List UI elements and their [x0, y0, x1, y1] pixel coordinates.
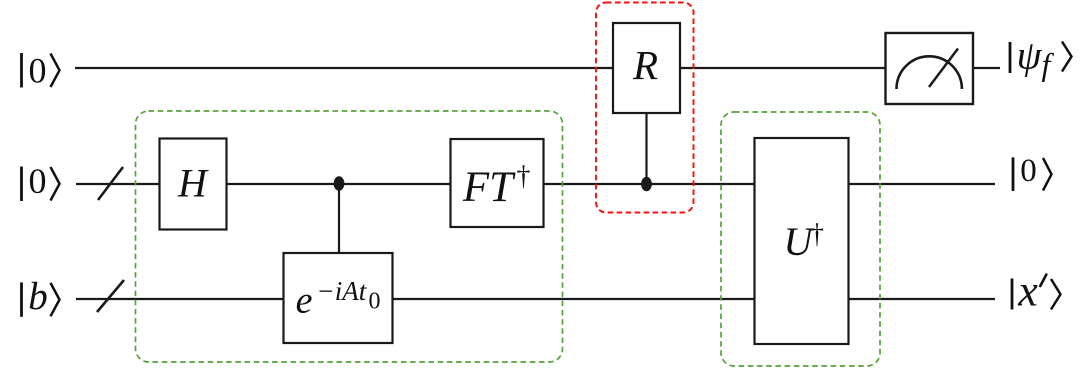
svg-text:H: H: [177, 160, 209, 205]
svg-text:R: R: [632, 42, 658, 88]
svg-text:f: f: [1042, 46, 1055, 82]
svg-text:0: 0: [29, 161, 47, 201]
gate H box: [160, 139, 227, 230]
svg-text:0: 0: [1020, 153, 1037, 189]
gate FT-dagger box: [451, 139, 544, 227]
green dashed box uncompute: [721, 112, 880, 366]
svg-text:e: e: [296, 280, 313, 322]
svg-text:ψ: ψ: [1017, 33, 1043, 78]
svg-text:†: †: [810, 219, 824, 250]
gate U-dagger label: [784, 219, 824, 264]
green dashed box phase-estimation: [136, 111, 563, 362]
bus slash middle wire: [98, 167, 123, 200]
wire bottom qubit segment 3 (Udag to |x'>): [848, 298, 995, 300]
label ket0 top left: [22, 50, 60, 90]
svg-text:−iAt: −iAt: [317, 276, 368, 306]
measurement meter needle: [929, 49, 958, 88]
control wire exp gate: [338, 184, 340, 254]
label ket x-prime right: [1012, 267, 1061, 316]
label ket psi_f right: [1010, 33, 1072, 83]
wire middle qubit segment 3 (FT to Udag): [543, 183, 755, 185]
control wire R gate: [645, 113, 647, 184]
label ket0 middle left: [22, 161, 60, 201]
svg-text:0: 0: [29, 50, 47, 90]
svg-text:b: b: [28, 275, 48, 318]
svg-text:FT: FT: [462, 164, 516, 211]
gate exp(-iAt0) label: [296, 276, 381, 322]
control dot on middle wire: [334, 176, 345, 191]
wire bottom qubit segment 1: [76, 298, 284, 300]
gate U-dagger box: [755, 138, 849, 344]
wire top qubit right stub (meter to psi_f): [973, 67, 1000, 69]
label ket b bottom left: [22, 275, 60, 318]
wire top qubit left segment: [75, 67, 613, 69]
wire bottom qubit segment 2 (exp gate to Udag): [392, 298, 755, 300]
control dot on middle wire for R: [641, 177, 652, 192]
label ket0 right: [1013, 153, 1052, 191]
svg-text:0: 0: [369, 289, 381, 315]
measurement meter arc: [897, 56, 962, 89]
bus slash bottom wire: [97, 280, 124, 312]
measurement meter box: [886, 33, 974, 104]
svg-text:†: †: [517, 161, 531, 192]
gate exp(-iAt0) box: [284, 253, 393, 343]
red dashed box rotation: [596, 3, 694, 213]
wire top qubit middle segment (R to meter): [680, 67, 885, 69]
svg-text:x: x: [1017, 267, 1038, 316]
wire middle qubit segment 4 (Udag to |0>): [848, 183, 995, 185]
wire middle qubit segment 2 (H to FT): [226, 183, 451, 185]
gate FT-dagger label: [462, 161, 531, 211]
wire middle qubit segment 1: [76, 183, 160, 185]
gate R box: [613, 23, 680, 113]
